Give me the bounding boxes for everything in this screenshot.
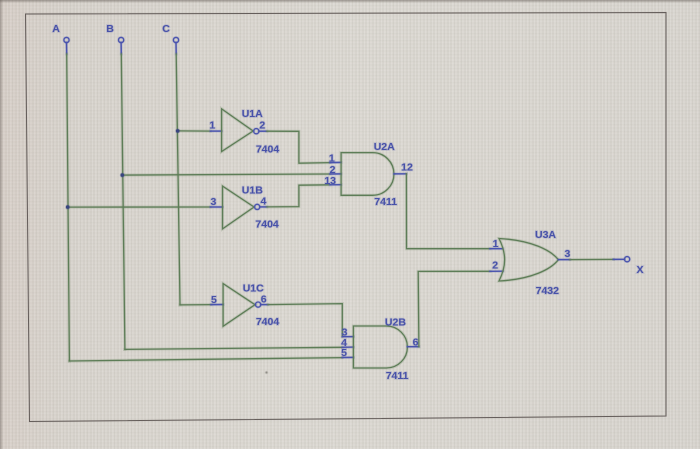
svg-text:6: 6	[261, 293, 267, 305]
pin stub U1C pin 5	[211, 303, 223, 306]
pin stub U2B pin 5	[342, 356, 353, 359]
wire U1A output to U2A pin 1	[267, 131, 330, 163]
svg-text:U3A: U3A	[535, 229, 556, 241]
svg-text:13: 13	[324, 175, 336, 187]
wire U1B output to U2A pin 13	[267, 185, 330, 207]
input terminal A	[64, 37, 69, 42]
pin stub U3A pin 1	[490, 247, 503, 250]
dust speck	[265, 371, 269, 375]
svg-text:1: 1	[493, 238, 499, 250]
output terminal X	[625, 257, 630, 262]
svg-text:1: 1	[209, 120, 215, 132]
svg-text:7404: 7404	[256, 316, 280, 328]
junction on B line	[120, 173, 125, 178]
wire C vertical	[176, 54, 180, 305]
wire C junction to U1A input	[178, 129, 211, 132]
inverter U1B bubble	[255, 204, 260, 209]
terminal C stem (blue)	[175, 43, 178, 54]
wire A vertical	[67, 54, 70, 361]
svg-text:7432: 7432	[536, 285, 560, 297]
pin stub U1C output pin 6	[261, 303, 268, 306]
pin stub U2B output pin 6	[407, 345, 419, 348]
svg-text:7404: 7404	[255, 219, 279, 231]
wire B vertical	[121, 54, 125, 349]
wire U3A output to X	[570, 258, 614, 261]
wire B junction to U2A pin 2	[122, 174, 330, 175]
svg-text:5: 5	[211, 294, 217, 306]
svg-text:U2A: U2A	[374, 141, 395, 153]
and-gate U2B body	[353, 326, 407, 368]
wire B bottom run to U2B pin 4	[125, 347, 342, 349]
svg-text:3: 3	[564, 248, 570, 260]
pin stub U1A output pin 2	[259, 130, 267, 133]
inverter U1A bubble	[254, 129, 259, 134]
svg-text:7404: 7404	[256, 143, 280, 155]
inverter U1A triangle	[222, 109, 254, 152]
pin stub U2A pin 2	[330, 172, 341, 175]
inverter U1B triangle	[223, 186, 255, 229]
svg-text:4: 4	[260, 196, 266, 208]
svg-text:12: 12	[401, 161, 413, 173]
input terminal B	[119, 37, 124, 42]
wire U2A output to U3A pin 1	[406, 174, 490, 249]
svg-text:2: 2	[259, 120, 265, 132]
and-gate U2A body	[341, 153, 394, 196]
svg-text:1: 1	[329, 153, 335, 165]
svg-text:5: 5	[341, 347, 347, 359]
wire U2B output to U3A pin 2	[418, 271, 490, 346]
svg-text:U1A: U1A	[242, 108, 263, 120]
pin stub U2A output pin 12	[394, 172, 406, 175]
junction on C line	[175, 128, 180, 133]
terminal A stem (blue)	[65, 43, 68, 54]
wire U1C output to U2B pin 3	[268, 304, 342, 337]
inverter U1C triangle	[223, 284, 255, 327]
svg-text:A: A	[52, 23, 60, 35]
or-gate U3A body	[499, 239, 558, 282]
svg-text:X: X	[636, 264, 643, 276]
svg-text:B: B	[106, 23, 114, 35]
wire A bottom run to U2B pin 5	[69, 358, 342, 361]
svg-text:7411: 7411	[386, 370, 409, 382]
wire C to U1C input	[180, 303, 211, 306]
terminal B stem (blue)	[120, 43, 123, 54]
svg-text:3: 3	[210, 196, 216, 208]
pin stub U3A output pin 3	[558, 258, 570, 261]
svg-text:6: 6	[413, 336, 419, 348]
pin stub U2B pin 3	[342, 335, 353, 338]
pin stub U1B output pin 4	[260, 205, 267, 208]
input terminal C	[173, 37, 178, 42]
pin stub U1A pin 1	[211, 130, 222, 133]
svg-text:2: 2	[492, 259, 498, 271]
svg-text:C: C	[162, 23, 170, 35]
pin stub U3A pin 2	[490, 270, 503, 273]
junction on A line	[65, 205, 70, 210]
pin stub U2B pin 4	[342, 346, 353, 349]
svg-text:U2B: U2B	[385, 316, 406, 328]
pin stub U2A pin 1	[330, 161, 341, 164]
pin stub U1B pin 3	[211, 206, 223, 209]
pin stub U2A pin 13	[330, 183, 341, 186]
terminal X stem (blue)	[614, 258, 625, 261]
svg-text:7411: 7411	[374, 196, 397, 208]
wire A junction to U1B input	[68, 205, 211, 208]
inverter U1C bubble	[256, 302, 261, 307]
